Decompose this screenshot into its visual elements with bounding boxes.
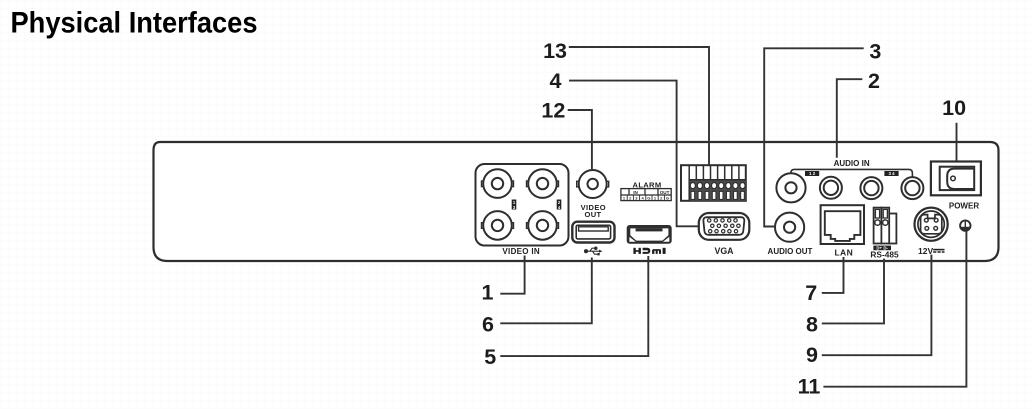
svg-text:G: G bbox=[647, 196, 650, 201]
callout 4 to VGA bbox=[569, 81, 698, 227]
callout 11 to ground bbox=[823, 231, 966, 387]
svg-text:VIDEO IN: VIDEO IN bbox=[502, 247, 540, 256]
BNC video in 1 bbox=[482, 169, 514, 198]
VGA connector bbox=[699, 213, 750, 240]
LAN RJ45 port bbox=[821, 205, 864, 244]
label HDMI logo bbox=[633, 248, 665, 254]
BNC video out bbox=[577, 170, 609, 198]
label VIDEO OUT bbox=[581, 203, 606, 219]
RCA audio in 2 bbox=[820, 177, 842, 199]
RCA audio out bbox=[775, 213, 804, 242]
RCA audio in 4 bbox=[901, 177, 923, 199]
ground screw bbox=[960, 220, 971, 230]
VIDEO IN group box bbox=[476, 164, 569, 246]
svg-text:G: G bbox=[666, 196, 669, 201]
ALARM terminal table bbox=[621, 189, 671, 201]
svg-text:6: 6 bbox=[482, 313, 494, 337]
svg-text:AUDIO IN: AUDIO IN bbox=[834, 159, 870, 168]
svg-text:3 4: 3 4 bbox=[888, 171, 895, 176]
svg-text:OUT: OUT bbox=[660, 190, 670, 195]
label 12V dc bbox=[918, 246, 945, 256]
rear panel enclosure bbox=[154, 142, 999, 261]
svg-text:11: 11 bbox=[798, 375, 821, 399]
callout 2 to audio in bbox=[837, 79, 863, 158]
svg-text:13: 13 bbox=[543, 39, 567, 63]
BNC video in 2 bbox=[527, 169, 559, 198]
BNC video in 4 bbox=[527, 211, 559, 240]
svg-text:3: 3 bbox=[869, 39, 881, 63]
callout 8 to rs-485 bbox=[822, 259, 884, 324]
alarm terminal block (phoenix connector) bbox=[681, 165, 746, 201]
svg-text:2: 2 bbox=[868, 69, 880, 93]
audio tag 3-4 bbox=[884, 171, 898, 176]
svg-text:1 2: 1 2 bbox=[809, 171, 816, 176]
AUDIO IN bracket bbox=[791, 169, 913, 177]
HDMI port bbox=[627, 225, 672, 244]
USB port bbox=[572, 222, 614, 243]
svg-text:IN: IN bbox=[633, 190, 638, 195]
power switch bbox=[931, 162, 981, 196]
svg-text:5: 5 bbox=[484, 345, 496, 369]
callout lines bbox=[500, 47, 966, 387]
RCA audio in 3 bbox=[860, 177, 882, 199]
callout 3 to audio out bbox=[764, 48, 864, 226]
svg-text:1: 1 bbox=[482, 281, 494, 305]
svg-text:POWER: POWER bbox=[949, 202, 979, 211]
12V power DIN socket bbox=[915, 208, 948, 241]
RCA audio in 1 bbox=[776, 173, 805, 202]
svg-text:12V: 12V bbox=[918, 246, 933, 256]
svg-text:8: 8 bbox=[806, 313, 818, 337]
RS-485 terminal bbox=[874, 208, 897, 244]
svg-text:7: 7 bbox=[805, 281, 817, 305]
svg-text:10: 10 bbox=[942, 96, 966, 120]
channel tag 1/3 bbox=[512, 200, 517, 210]
svg-text:LAN: LAN bbox=[834, 248, 853, 258]
callout 1 to video in bbox=[500, 256, 524, 294]
BNC video in 3 bbox=[482, 211, 514, 240]
audio tag 1-2 bbox=[805, 171, 819, 176]
svg-text:VGA: VGA bbox=[714, 246, 734, 256]
callout 9 to 12v bbox=[822, 255, 932, 356]
RS-485 tag D+ D- bbox=[873, 246, 891, 251]
callout 13 to alarm block bbox=[569, 47, 709, 165]
svg-text:4: 4 bbox=[550, 69, 562, 93]
callout 12 to video out bbox=[568, 110, 592, 170]
svg-text:OUT: OUT bbox=[584, 210, 601, 219]
callout 7 to lan bbox=[822, 257, 844, 293]
channel tag 2/4 bbox=[557, 200, 562, 210]
svg-text:Physical Interfaces: Physical Interfaces bbox=[11, 7, 258, 40]
svg-text:9: 9 bbox=[806, 343, 818, 367]
svg-text:RS-485: RS-485 bbox=[870, 250, 899, 260]
svg-text:AUDIO OUT: AUDIO OUT bbox=[768, 247, 813, 256]
callout 6 to usb bbox=[500, 258, 592, 324]
svg-text:12: 12 bbox=[541, 99, 565, 123]
USB symbol bbox=[585, 247, 603, 255]
callout 5 to hdmi bbox=[500, 256, 648, 356]
callout 10 to power switch bbox=[956, 123, 958, 161]
